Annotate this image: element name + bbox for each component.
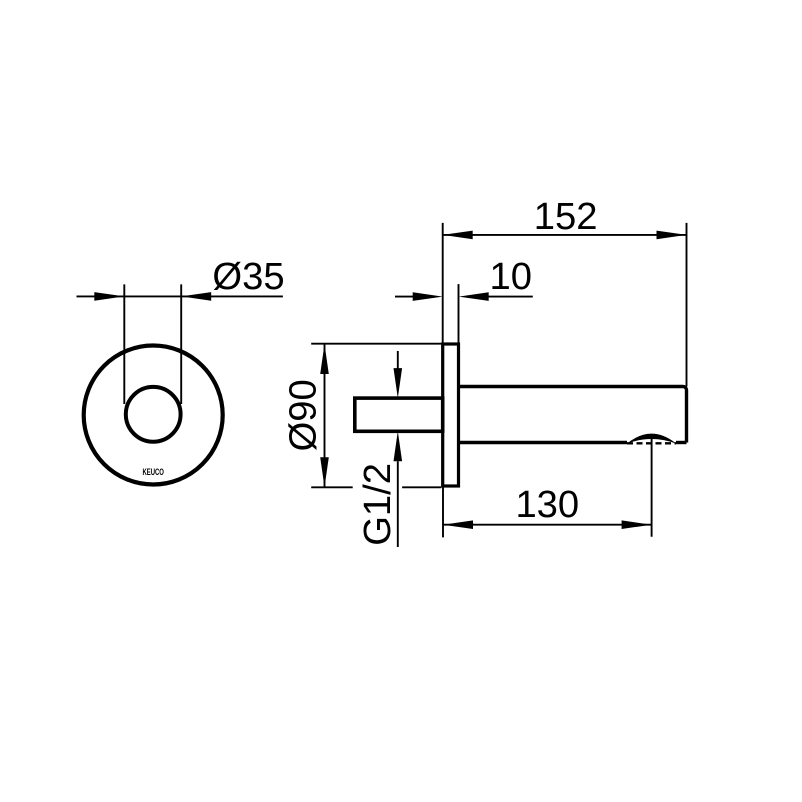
svg-text:G1/2: G1/2 — [356, 463, 399, 546]
svg-text:10: 10 — [489, 255, 531, 298]
svg-text:Ø90: Ø90 — [282, 379, 325, 451]
svg-text:Ø35: Ø35 — [212, 255, 284, 298]
svg-text:152: 152 — [534, 195, 598, 238]
svg-text:KEUCO: KEUCO — [142, 467, 164, 478]
svg-text:130: 130 — [515, 483, 579, 526]
